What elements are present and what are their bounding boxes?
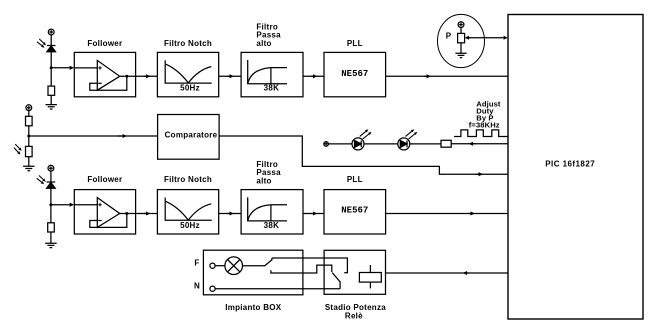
svg-text:Comparatore: Comparatore <box>165 130 218 139</box>
svg-text:alto: alto <box>256 39 271 48</box>
svg-text:Filtro Notch: Filtro Notch <box>164 39 212 48</box>
svg-text:NE567: NE567 <box>341 69 368 79</box>
svg-text:50Hz: 50Hz <box>180 84 200 93</box>
svg-text:F: F <box>194 259 199 268</box>
svg-text:NE567: NE567 <box>341 206 368 216</box>
svg-text:38K: 38K <box>264 221 280 230</box>
svg-text:f=38KHz: f=38KHz <box>469 120 500 129</box>
svg-text:38K: 38K <box>264 84 280 93</box>
svg-text:Relè: Relè <box>345 312 363 321</box>
svg-text:Follower: Follower <box>87 39 122 48</box>
svg-text:Filtro Notch: Filtro Notch <box>164 175 212 184</box>
svg-text:50Hz: 50Hz <box>180 221 200 230</box>
svg-text:Impianto BOX: Impianto BOX <box>225 303 282 312</box>
svg-text:PLL: PLL <box>347 175 363 184</box>
svg-text:P: P <box>446 31 452 40</box>
svg-text:alto: alto <box>256 177 271 186</box>
svg-text:PLL: PLL <box>347 39 363 48</box>
svg-text:PIC 16f1827: PIC 16f1827 <box>545 160 595 169</box>
svg-text:N: N <box>194 281 200 290</box>
svg-text:Follower: Follower <box>87 175 122 184</box>
